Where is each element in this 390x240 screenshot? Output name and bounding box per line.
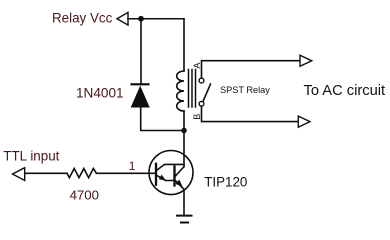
diode D1 1N4001 cathode bar (131, 83, 150, 85)
junction mid dot (181, 128, 187, 134)
transistor Q1 TIP120 circle (149, 151, 193, 195)
svg-text:1: 1 (129, 159, 136, 173)
relay core bars (188, 70, 190, 108)
wire top rail (128, 18, 184, 20)
wire diode to junction (141, 108, 184, 131)
ground bar 2 (181, 222, 188, 224)
svg-text:To AC circuit: To AC circuit (304, 83, 386, 99)
svg-text:B: B (192, 114, 202, 120)
node To AC bottom arrow (298, 116, 310, 127)
wire diode branch down (140, 19, 142, 84)
transistor Q1 T1 emitter arrowhead (159, 175, 166, 181)
junction top dot (138, 16, 144, 22)
transistor Q1 T2 collector (175, 167, 184, 177)
wire base (96, 172, 156, 174)
transistor Q1 T2 emitter (175, 180, 184, 189)
transistor Q1 base bar 2 (173, 167, 175, 186)
wire coil top feed (183, 19, 185, 71)
ground bar 1 (177, 215, 192, 217)
wire coil bottom to junction (183, 111, 185, 131)
wire emitter to ground (183, 189, 185, 215)
wire input (25, 172, 67, 174)
node To AC top arrow (300, 55, 312, 66)
diode D1 1N4001 anode triangle (131, 86, 150, 108)
switch contact B wire (202, 106, 299, 121)
svg-text:Relay Vcc: Relay Vcc (52, 10, 113, 25)
transistor Q1 T2 emitter arrowhead (175, 180, 182, 187)
switch blade (203, 84, 211, 102)
transistor Q1 base bar 1 (155, 164, 157, 185)
transistor Q1 T1 emitter (157, 175, 174, 180)
svg-text:TIP120: TIP120 (204, 175, 247, 190)
svg-text:A: A (192, 63, 202, 69)
node TTL input port arrow (13, 168, 25, 181)
wire collector (183, 131, 185, 167)
svg-text:TTL input: TTL input (3, 148, 59, 163)
svg-text:SPST Relay: SPST Relay (220, 85, 270, 95)
transistor Q1 T1 collector (157, 164, 184, 170)
switch contact A wire (202, 61, 301, 78)
node Relay Vcc port arrow (117, 12, 128, 25)
svg-text:4700: 4700 (70, 187, 99, 202)
svg-text:1N4001: 1N4001 (76, 85, 124, 100)
relay coil L1 (177, 71, 184, 111)
resistor R1 4700 zigzag (67, 169, 96, 178)
switch contact B circle (199, 101, 204, 106)
switch contact A circle (199, 78, 204, 83)
